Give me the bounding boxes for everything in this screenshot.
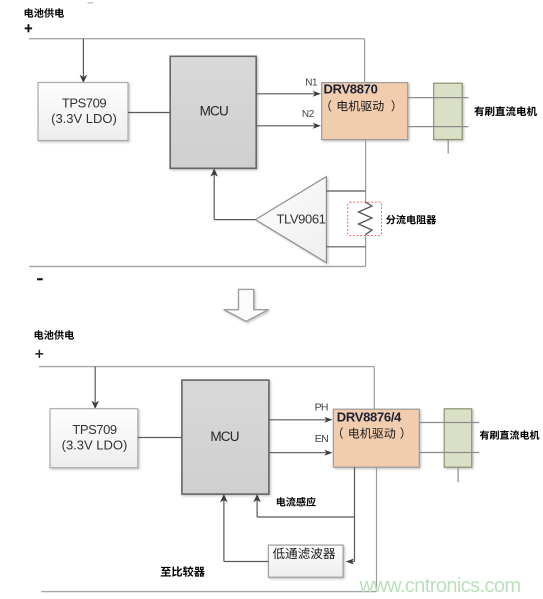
svg-text:www.cntronics.com: www.cntronics.com — [359, 575, 521, 597]
svg-text:TPS709: TPS709 — [62, 96, 106, 111]
svg-text:N2: N2 — [302, 109, 315, 120]
svg-text:(3.3V LDO): (3.3V LDO) — [51, 111, 117, 126]
svg-text:N1: N1 — [305, 78, 318, 89]
svg-text:(3.3V LDO): (3.3V LDO) — [62, 437, 128, 452]
svg-text:TLV9061: TLV9061 — [277, 211, 326, 226]
svg-text:DRV8870: DRV8870 — [324, 82, 378, 97]
svg-text:DRV8876/4: DRV8876/4 — [337, 410, 402, 425]
svg-text:PH: PH — [315, 402, 328, 414]
svg-text:EN: EN — [315, 433, 328, 445]
svg-text:MCU: MCU — [210, 429, 238, 444]
svg-text:MCU: MCU — [200, 104, 228, 119]
svg-text:TPS709: TPS709 — [72, 422, 116, 437]
